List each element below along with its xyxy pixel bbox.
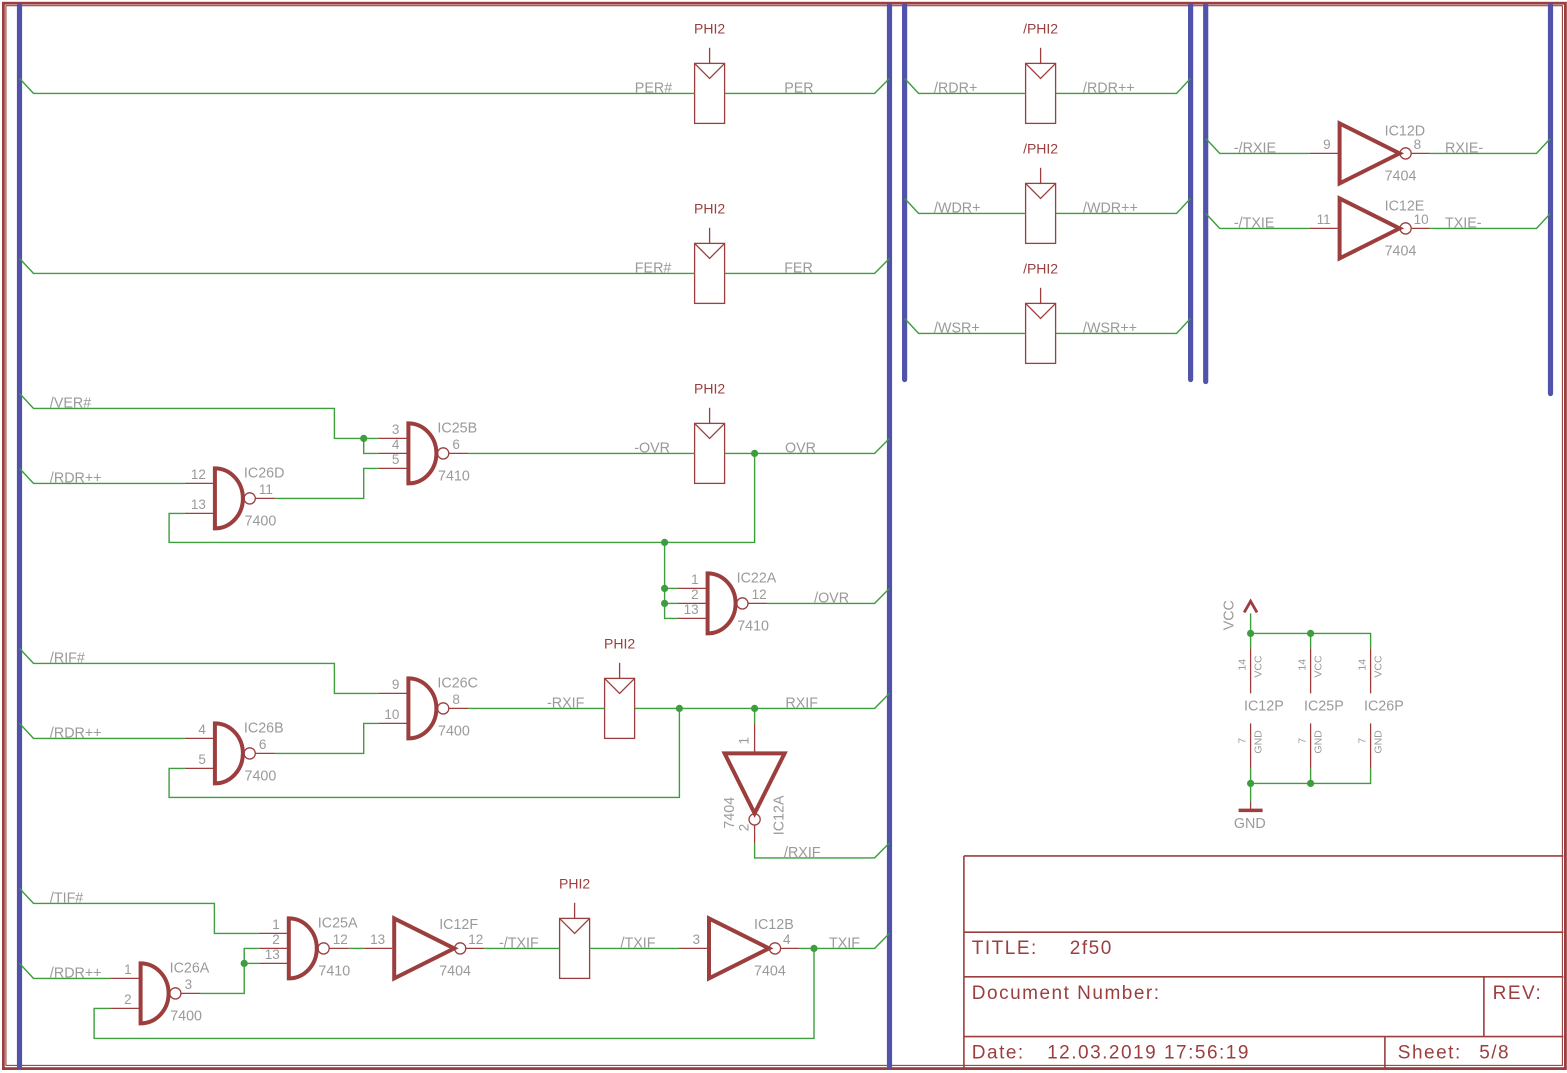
- svg-text:PER#: PER#: [635, 80, 672, 96]
- svg-text:7404: 7404: [1385, 243, 1417, 259]
- svg-text:/RDR++: /RDR++: [50, 965, 102, 981]
- wire /RXIF: [755, 843, 890, 858]
- svg-text:REV:: REV:: [1493, 983, 1543, 1004]
- svg-text:7400: 7400: [245, 768, 277, 784]
- wire IC26D pin13 feedback from OVR: [169, 453, 755, 542]
- svg-text:VCC: VCC: [1312, 655, 1324, 678]
- wire IC26A pin2 feedback from TXIF: [94, 948, 814, 1038]
- node junction VCC IC25P: [1307, 630, 1314, 637]
- svg-text:12: 12: [333, 932, 348, 947]
- latch G8$1 PHI2 (TXIF row): [560, 903, 590, 979]
- inverter IC12A 7404 rotated down: [725, 753, 785, 813]
- wire /TIF# to IC25A pin1: [20, 888, 259, 933]
- wire RXIE-: [1430, 138, 1551, 153]
- ground symbol GND1: [1250, 801, 1252, 810]
- svg-text:7410: 7410: [318, 963, 350, 979]
- latch G2$1 PHI2 (FER row): [695, 228, 725, 304]
- wire PER: [725, 78, 890, 93]
- svg-text:/WSR+: /WSR+: [934, 320, 980, 336]
- bus right-pair (left side of section 3): [1203, 6, 1208, 382]
- node junction TXIF: [810, 945, 817, 952]
- svg-text:RXIF: RXIF: [785, 695, 818, 711]
- svg-text:5: 5: [392, 452, 400, 467]
- svg-text:8: 8: [1414, 137, 1422, 152]
- svg-text:-OVR: -OVR: [634, 440, 670, 456]
- svg-text:GND: GND: [1234, 816, 1266, 832]
- bus left (net bus section 1): [17, 6, 22, 1067]
- svg-text:IC26B: IC26B: [244, 720, 284, 736]
- svg-text:11: 11: [259, 482, 273, 497]
- power pins IC26P: [1370, 648, 1372, 693]
- svg-text:IC26C: IC26C: [437, 675, 478, 691]
- wire TXIE-: [1430, 213, 1551, 228]
- svg-text:TXIF: TXIF: [829, 935, 860, 951]
- wire VCC drop IC12P: [1250, 633, 1252, 648]
- svg-text:2: 2: [691, 587, 699, 602]
- svg-text:1: 1: [736, 737, 751, 745]
- wire IC26A out to IC25A pin2: [201, 948, 259, 993]
- wire /WSR++ out: [1056, 318, 1191, 333]
- svg-text:/WDR++: /WDR++: [1083, 200, 1138, 216]
- svg-text:VCC: VCC: [1372, 655, 1384, 678]
- svg-text:/RDR++: /RDR++: [50, 470, 102, 486]
- svg-text:2f50: 2f50: [1070, 938, 1113, 959]
- bus mid-left short (left side of section 2): [902, 6, 907, 380]
- svg-text:/PHI2: /PHI2: [1023, 21, 1058, 37]
- svg-text:-/TXIF: -/TXIF: [499, 935, 539, 951]
- svg-text:2: 2: [272, 932, 280, 947]
- svg-text:3: 3: [392, 422, 400, 437]
- svg-text:/TXIF: /TXIF: [621, 935, 656, 951]
- node junction RXIF pin1: [751, 705, 758, 712]
- title block outline: [964, 856, 1564, 1068]
- wire /RDR++ to IC26A pin1: [20, 963, 111, 978]
- nand IC26C 7400: [378, 678, 468, 738]
- wire -RXIF: [468, 707, 604, 709]
- node junction feeder pin1: [661, 585, 668, 592]
- node junction feeder top: [661, 539, 668, 546]
- wire /VER# to IC25B pin3: [20, 393, 379, 438]
- wire TXIF: [799, 933, 890, 948]
- latch G1$1 PHI2 (PER row): [695, 48, 725, 124]
- nand IC25A 7410: [259, 918, 349, 978]
- svg-text:Document Number:: Document Number:: [972, 983, 1161, 1004]
- svg-text:7400: 7400: [438, 723, 470, 739]
- svg-text:9: 9: [392, 677, 400, 692]
- svg-text:/WDR+: /WDR+: [934, 200, 980, 216]
- wire IC22A input feeder: [665, 542, 678, 618]
- svg-text:/WSR++: /WSR++: [1083, 320, 1137, 336]
- bus mid-right short (right side of section 2): [1188, 6, 1193, 380]
- svg-text:6: 6: [259, 737, 267, 752]
- svg-text:/VER#: /VER#: [50, 395, 91, 411]
- power pins IC12P: [1250, 648, 1252, 693]
- wire /RDR+: [905, 78, 1026, 93]
- nand IC26D 7400: [185, 468, 275, 528]
- svg-text:1: 1: [272, 917, 280, 932]
- node junction IC25A pin13: [241, 960, 248, 967]
- node junction GND IC25P: [1307, 780, 1314, 787]
- svg-text:/RDR++: /RDR++: [50, 725, 102, 741]
- vcc symbol P+1: [1250, 613, 1252, 633]
- wire IC12A pin1: [754, 708, 756, 723]
- svg-text:PER: PER: [784, 80, 813, 96]
- wire IC26B out to IC26C pin10: [275, 723, 379, 753]
- svg-text:10: 10: [384, 707, 399, 722]
- inverter IC12F 7404: [364, 918, 484, 978]
- svg-text:IC22A: IC22A: [737, 570, 777, 586]
- svg-text:13: 13: [265, 947, 280, 962]
- wire IC22A pin1 stub: [665, 587, 678, 589]
- svg-text:OVR: OVR: [785, 440, 816, 456]
- node junction GND IC12P: [1247, 780, 1254, 787]
- svg-text:10: 10: [1414, 212, 1429, 227]
- wire -/RXIE: [1206, 138, 1310, 153]
- svg-text:-/RXIE: -/RXIE: [1234, 140, 1276, 156]
- svg-text:7404: 7404: [754, 963, 786, 979]
- nand IC22A 7410: [678, 573, 768, 633]
- wire FER#: [20, 258, 695, 273]
- svg-text:PHI2: PHI2: [694, 381, 725, 397]
- svg-text:-RXIF: -RXIF: [547, 695, 585, 711]
- wire FER: [725, 258, 890, 273]
- svg-text:/PHI2: /PHI2: [1023, 261, 1058, 277]
- svg-text:FER: FER: [784, 260, 813, 276]
- svg-text:12: 12: [191, 467, 206, 482]
- svg-text:12: 12: [468, 932, 483, 947]
- wire /RDR++ out: [1056, 78, 1191, 93]
- svg-text:TITLE:: TITLE:: [972, 938, 1038, 959]
- svg-text:14: 14: [1236, 659, 1248, 671]
- latch G6$1 PHI2 (OVR row): [695, 408, 725, 484]
- wire -OVR: [468, 452, 694, 454]
- wire /RDR++ to IC26D pin12: [20, 468, 185, 483]
- svg-text:7400: 7400: [245, 513, 277, 529]
- svg-text:12.03.2019 17:56:19: 12.03.2019 17:56:19: [1047, 1042, 1250, 1063]
- node junction VER/pin4: [360, 435, 367, 442]
- svg-text:7410: 7410: [737, 618, 769, 634]
- svg-text:TXIE-: TXIE-: [1445, 215, 1482, 231]
- svg-text:12: 12: [752, 587, 767, 602]
- node junction OVR: [751, 450, 758, 457]
- svg-text:4: 4: [392, 437, 400, 452]
- svg-text:/TIF#: /TIF#: [50, 890, 83, 906]
- svg-text:/RDR++: /RDR++: [1083, 80, 1135, 96]
- wire VCC drop IC25P: [1310, 633, 1312, 648]
- svg-text:7: 7: [1236, 738, 1248, 744]
- wire PER#: [20, 78, 695, 93]
- wire /WDR++ out: [1056, 198, 1191, 213]
- svg-text:GND: GND: [1252, 730, 1264, 754]
- svg-text:IC12A: IC12A: [772, 795, 788, 835]
- svg-text:RXIE-: RXIE-: [1445, 140, 1483, 156]
- wire IC22A pin2 stub: [665, 602, 678, 604]
- svg-text:5: 5: [198, 752, 206, 767]
- latch G4$1 /PHI2 (/WDR row): [1026, 168, 1056, 244]
- svg-text:IC25B: IC25B: [437, 420, 477, 436]
- latch G7$1 PHI2 (RXIF row): [605, 663, 635, 739]
- svg-text:Date:: Date:: [972, 1042, 1025, 1063]
- node junction RXIF drop: [676, 705, 683, 712]
- svg-text:PHI2: PHI2: [694, 21, 725, 37]
- svg-text:13: 13: [370, 932, 385, 947]
- nand IC26A 7400: [111, 963, 201, 1023]
- wire /TXIF: [590, 947, 679, 949]
- svg-text:5/8: 5/8: [1479, 1042, 1510, 1063]
- wire /RDR++ to IC26B pin4: [20, 723, 185, 738]
- svg-text:IC12P: IC12P: [1244, 699, 1284, 715]
- svg-text:FER#: FER#: [635, 260, 672, 276]
- svg-text:2: 2: [736, 824, 751, 832]
- svg-text:IC26A: IC26A: [170, 960, 210, 976]
- inverter IC12B 7404: [679, 918, 799, 978]
- wire RXIF feedback to IC26B pin5: [169, 708, 679, 797]
- svg-text:VCC: VCC: [1252, 655, 1264, 678]
- svg-text:1: 1: [691, 572, 699, 587]
- svg-text:7400: 7400: [170, 1008, 202, 1024]
- node junction VCC IC12P: [1247, 630, 1254, 637]
- svg-text:IC12F: IC12F: [439, 917, 478, 933]
- latch G5$1 /PHI2 (/WSR row): [1026, 288, 1056, 364]
- svg-text:11: 11: [1317, 212, 1331, 227]
- node junction feeder pin2: [661, 600, 668, 607]
- svg-text:13: 13: [684, 602, 699, 617]
- svg-text:14: 14: [1296, 659, 1308, 671]
- wire /WSR+: [905, 318, 1026, 333]
- svg-text:6: 6: [452, 437, 460, 452]
- svg-text:7404: 7404: [1385, 168, 1417, 184]
- wire /WDR+: [905, 198, 1026, 213]
- svg-text:/RIF#: /RIF#: [50, 650, 85, 666]
- wire -/TXIE: [1206, 213, 1310, 228]
- wire /RIF# to IC26C pin9: [20, 648, 379, 693]
- wire OVR: [725, 438, 890, 453]
- wire IC25A pin13 stub: [244, 962, 259, 964]
- power pins IC25P: [1310, 648, 1312, 693]
- svg-text:7410: 7410: [438, 468, 470, 484]
- svg-text:13: 13: [191, 497, 206, 512]
- svg-text:7: 7: [1356, 738, 1368, 744]
- wire IC26D out to IC25B pin5: [275, 468, 379, 498]
- wire GND rail: [1251, 768, 1371, 783]
- svg-text:/RXIF: /RXIF: [784, 845, 821, 861]
- nand IC26B 7400: [185, 723, 275, 783]
- svg-text:IC26D: IC26D: [244, 465, 285, 481]
- svg-text:8: 8: [452, 692, 460, 707]
- svg-text:/PHI2: /PHI2: [1023, 141, 1058, 157]
- svg-text:3: 3: [692, 932, 700, 947]
- svg-text:-/TXIE: -/TXIE: [1234, 215, 1275, 231]
- svg-text:/OVR: /OVR: [814, 590, 849, 606]
- svg-text:IC25A: IC25A: [318, 915, 358, 931]
- svg-text:14: 14: [1356, 659, 1368, 671]
- wire to GND symbol: [1250, 783, 1252, 801]
- svg-text:2: 2: [124, 992, 132, 1007]
- svg-text:GND: GND: [1372, 730, 1384, 754]
- latch G3$1 /PHI2 (/RDR row): [1026, 48, 1056, 124]
- wire /OVR: [768, 588, 890, 603]
- svg-text:GND: GND: [1312, 730, 1324, 754]
- wire VCC rail: [1251, 633, 1371, 648]
- bus mid-left long (right side of section 1): [887, 6, 892, 1067]
- svg-text:IC26P: IC26P: [1364, 699, 1404, 715]
- inverter IC12D 7404: [1310, 123, 1430, 183]
- svg-text:PHI2: PHI2: [559, 876, 590, 892]
- svg-text:4: 4: [783, 932, 791, 947]
- svg-text:1: 1: [124, 962, 132, 977]
- svg-text:Sheet:: Sheet:: [1398, 1042, 1462, 1063]
- svg-text:/RDR+: /RDR+: [934, 80, 977, 96]
- svg-text:VCC: VCC: [1222, 600, 1238, 630]
- svg-text:7: 7: [1296, 738, 1308, 744]
- inverter IC12E 7404: [1310, 198, 1430, 258]
- svg-text:PHI2: PHI2: [604, 636, 635, 652]
- svg-text:PHI2: PHI2: [694, 201, 725, 217]
- wire GND drop IC25P: [1310, 768, 1312, 783]
- bus far right (right side of section 3): [1548, 6, 1553, 394]
- wire IC25A out to IC12F in: [349, 947, 364, 949]
- svg-text:IC25P: IC25P: [1304, 699, 1344, 715]
- wire RXIF: [635, 693, 890, 708]
- svg-text:4: 4: [198, 722, 206, 737]
- nand IC25B 7410: [378, 423, 468, 483]
- svg-text:3: 3: [185, 977, 193, 992]
- svg-text:IC12B: IC12B: [754, 917, 794, 933]
- svg-text:7404: 7404: [439, 963, 471, 979]
- svg-text:9: 9: [1323, 137, 1331, 152]
- wire branch to IC25B pin4: [364, 438, 379, 453]
- wire -/TXIF: [484, 947, 559, 949]
